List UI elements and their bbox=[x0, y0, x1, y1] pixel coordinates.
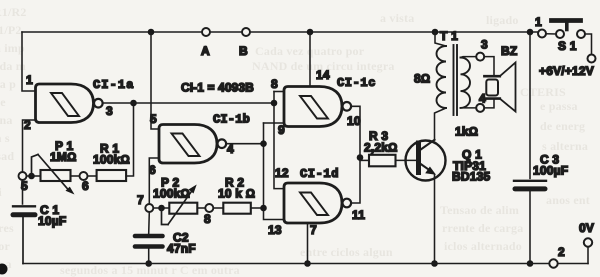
capacitor C3 bbox=[514, 32, 546, 264]
wire top rail left segment (net A) bbox=[22, 31, 202, 33]
wire to R3 bbox=[360, 159, 369, 161]
node 4 terminal bbox=[476, 104, 484, 112]
svg-text:de energ: de energ bbox=[540, 119, 585, 133]
switch S1 bbox=[552, 21, 586, 39]
potentiometer P1 bbox=[32, 155, 75, 195]
node 6 terminal bbox=[80, 172, 88, 180]
terminal +V bbox=[588, 55, 596, 63]
svg-text:8Ω: 8Ω bbox=[414, 72, 430, 86]
svg-text:8: 8 bbox=[271, 77, 278, 91]
svg-text:7: 7 bbox=[310, 223, 317, 237]
op-amp gate CI-1a bbox=[36, 84, 103, 123]
wire R1 to CI-1a output bbox=[126, 103, 133, 176]
switch S1 node 1 terminal bbox=[538, 30, 546, 38]
junction net3 at output 3 bbox=[271, 100, 278, 107]
svg-text:11: 11 bbox=[352, 208, 365, 222]
svg-text:A: A bbox=[201, 44, 210, 58]
svg-text:CI-1b: CI-1b bbox=[213, 113, 250, 127]
svg-text:1: 1 bbox=[535, 15, 542, 29]
junction outputs 10+11 bbox=[357, 154, 364, 161]
op-amp gate CI-1b bbox=[159, 125, 226, 164]
node 3 terminal bbox=[476, 53, 484, 61]
svg-text:47nF: 47nF bbox=[167, 242, 196, 256]
svg-text:a usad: a usad bbox=[0, 149, 14, 163]
capacitor C2 bbox=[135, 212, 163, 263]
svg-text:100kΩ: 100kΩ bbox=[153, 187, 190, 201]
node 8 terminal bbox=[205, 204, 213, 212]
node 7 terminal bbox=[145, 204, 153, 212]
svg-text:2: 2 bbox=[24, 118, 31, 132]
resistor R3 bbox=[369, 155, 396, 167]
svg-text:bobina: bobina bbox=[0, 113, 13, 127]
wire net4 vertical (pin4 to 9,13,R2) bbox=[264, 123, 285, 220]
svg-text:e passa: e passa bbox=[540, 99, 578, 113]
junction P2 wiper bbox=[158, 205, 165, 212]
wire P2 to node 8 bbox=[197, 207, 205, 209]
svg-text:entre P1/P2: entre P1/P2 bbox=[0, 23, 22, 37]
svg-text:CI-1d: CI-1d bbox=[300, 167, 339, 181]
svg-text:6: 6 bbox=[82, 179, 89, 193]
junction R1 feedback on output 3 bbox=[130, 100, 137, 107]
junction P1 wiper at node 5 bbox=[28, 173, 35, 180]
svg-text:1kΩ: 1kΩ bbox=[455, 125, 478, 139]
wire secondary top to node 3 bbox=[461, 56, 477, 59]
svg-text:1MΩ: 1MΩ bbox=[50, 150, 77, 164]
junction top rail to pin5 line bbox=[148, 29, 155, 36]
wire pin 9 stub bbox=[264, 122, 285, 124]
potentiometer P2 bbox=[162, 185, 198, 225]
wire output 11 up to R3 node bbox=[351, 158, 360, 204]
transformer T1 bbox=[435, 32, 471, 140]
svg-text:CI-1 = 4093B: CI-1 = 4093B bbox=[181, 81, 254, 95]
svg-text:Tensao de alim: Tensao de alim bbox=[440, 203, 519, 217]
svg-text:8: 8 bbox=[204, 212, 211, 226]
svg-text:a vista: a vista bbox=[380, 11, 414, 25]
wire left rail down to pin 1 bbox=[22, 32, 36, 91]
svg-text:14: 14 bbox=[316, 68, 330, 82]
wire net A vertical to pin 5 bbox=[151, 32, 159, 129]
junction Q1 emitter ground bbox=[431, 260, 438, 267]
svg-text:ornos da p: ornos da p bbox=[0, 77, 16, 91]
svg-text:12: 12 bbox=[275, 166, 289, 180]
svg-text:iclos alternado: iclos alternado bbox=[444, 239, 522, 253]
wire bottom rail bbox=[23, 263, 588, 265]
wire output 3 across to net3 vertical bbox=[103, 102, 274, 104]
wire top rail right segment (V+) bbox=[251, 31, 538, 33]
junction top rail to C3 bbox=[527, 29, 534, 36]
svg-text:3: 3 bbox=[106, 104, 113, 118]
wire 0V terminal bbox=[587, 247, 589, 264]
svg-text:rrente de carga: rrente de carga bbox=[442, 221, 523, 235]
svg-text:1: 1 bbox=[26, 73, 33, 87]
wire secondary bottom to node 4 bbox=[461, 107, 477, 109]
svg-text:e transi: e transi bbox=[0, 185, 2, 199]
svg-text:5: 5 bbox=[150, 112, 157, 126]
junction top rail to T1 bbox=[432, 29, 439, 36]
wire node 4 to BZ bbox=[484, 99, 494, 108]
terminal 0V bbox=[584, 238, 592, 246]
svg-text:5: 5 bbox=[21, 179, 28, 193]
svg-text:3: 3 bbox=[481, 38, 488, 52]
wire node7 to P2 bbox=[154, 207, 170, 209]
op-amp gate CI-1c bbox=[284, 87, 351, 127]
svg-text:0V: 0V bbox=[579, 221, 594, 235]
wire pin6 to node 7 bbox=[149, 158, 159, 204]
wire node 3 to BZ bbox=[484, 57, 494, 76]
svg-text:2,2kΩ: 2,2kΩ bbox=[364, 141, 398, 155]
svg-text:ligado: ligado bbox=[486, 13, 519, 27]
node 5 terminal circle bbox=[19, 172, 27, 180]
wire node1 to S1 bbox=[546, 33, 556, 35]
wire S1 to +V terminal bbox=[585, 34, 592, 55]
svg-text:CI-1c: CI-1c bbox=[337, 76, 376, 90]
junction pin 7 ground bbox=[304, 260, 311, 267]
svg-text:100µF: 100µF bbox=[533, 164, 568, 178]
junction C3 ground bbox=[527, 260, 534, 267]
wire R2 to net4 bbox=[251, 207, 264, 209]
svg-text:envolvime: envolvime bbox=[0, 95, 6, 109]
wire pin 2 down to node 5 bbox=[23, 120, 36, 172]
junction net4 at output 4 bbox=[260, 140, 267, 147]
svg-text:em R1/R2: em R1/R2 bbox=[0, 5, 27, 19]
svg-text:CTERIS: CTERIS bbox=[520, 85, 566, 99]
svg-text:resistor: resistor bbox=[0, 239, 11, 253]
svg-text:s alterna: s alterna bbox=[542, 139, 588, 153]
svg-text:podem s: podem s bbox=[0, 131, 10, 145]
wire node 5 to P1 bbox=[27, 175, 41, 177]
scan bullet artifact bottom-left bbox=[0, 264, 8, 275]
svg-text:7: 7 bbox=[137, 193, 144, 207]
svg-text:10µF: 10µF bbox=[38, 214, 66, 228]
svg-text:9: 9 bbox=[278, 123, 285, 137]
svg-text:2: 2 bbox=[558, 245, 565, 259]
svg-text:100kΩ: 100kΩ bbox=[93, 153, 130, 167]
wire pin 14 to V+ bbox=[309, 32, 311, 86]
wire net3 vertical (pin3 to 8,12) bbox=[274, 91, 284, 93]
wire P1 to node 6 bbox=[71, 175, 80, 177]
svg-text:T 1: T 1 bbox=[440, 29, 458, 43]
svg-text:10: 10 bbox=[347, 114, 361, 128]
junction C2 on bottom rail bbox=[145, 260, 152, 267]
resistor R2 bbox=[223, 203, 251, 214]
resistor R1 bbox=[97, 170, 127, 181]
junction top rail to pin14 bbox=[307, 29, 314, 36]
node A terminal bbox=[202, 28, 210, 36]
svg-text:valores: valores bbox=[0, 221, 14, 235]
wire output 4 to net4 vertical bbox=[226, 143, 263, 145]
capacitor C1 bbox=[13, 206, 35, 263]
wire R3 to Q1 base bbox=[396, 159, 417, 161]
wire node 5 to C1 bbox=[22, 180, 24, 204]
svg-text:13: 13 bbox=[268, 223, 282, 237]
wire pin 7 to ground rail bbox=[307, 223, 309, 264]
svg-text:BD135: BD135 bbox=[452, 170, 490, 184]
buzzer BZ speaker bbox=[484, 63, 515, 112]
svg-text:CI-1a: CI-1a bbox=[93, 78, 135, 92]
op-amp gate CI-1d bbox=[284, 183, 351, 223]
svg-text:+6V/+12V: +6V/+12V bbox=[539, 64, 594, 78]
svg-text:B: B bbox=[239, 44, 248, 58]
svg-text:BZ: BZ bbox=[501, 44, 517, 58]
svg-text:10 k Ω: 10 k Ω bbox=[218, 187, 255, 201]
node 2 terminal bbox=[549, 259, 557, 267]
transistor Q1 bbox=[406, 140, 446, 264]
junction net4 at R2 bbox=[260, 205, 267, 212]
svg-text:entre ciclos algun: entre ciclos algun bbox=[300, 245, 393, 259]
wire node 6 to R1 bbox=[88, 175, 97, 177]
wire output 10 down to R3 node bbox=[351, 106, 360, 157]
wire A to B bbox=[210, 31, 241, 33]
svg-text:anos ent: anos ent bbox=[546, 193, 590, 207]
svg-text:6: 6 bbox=[149, 163, 156, 177]
svg-text:S 1: S 1 bbox=[558, 39, 577, 53]
node B terminal bbox=[242, 28, 250, 36]
wire node8 to R2 bbox=[214, 207, 224, 209]
